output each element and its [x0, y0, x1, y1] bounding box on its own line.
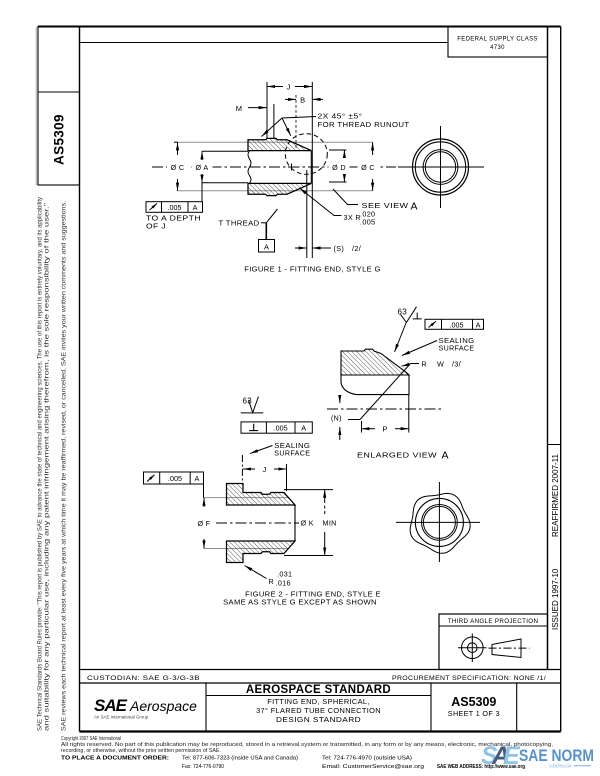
long right extension line — [311, 82, 313, 258]
dim OD line — [343, 150, 345, 158]
svg-text:AEROSPACE STANDARD: AEROSPACE STANDARD — [246, 684, 391, 696]
title block divider as5309 cell right — [516, 683, 518, 732]
dim OA extension top — [202, 150, 248, 152]
inner top border — [80, 42, 449, 44]
svg-text:FOR THREAD RUNOUT: FOR THREAD RUNOUT — [318, 120, 410, 129]
svg-text:4730: 4730 — [490, 45, 505, 51]
fcf enlarged runout symbol — [429, 321, 437, 327]
r w leader horizontal — [411, 363, 420, 365]
enlarged view right edge — [408, 375, 410, 395]
svg-text:AS5309: AS5309 — [451, 695, 496, 709]
outer top border — [38, 26, 561, 28]
fig2 J dim arrows — [243, 468, 255, 470]
svg-text:AS5309: AS5309 — [52, 114, 67, 165]
svg-text:/3/: /3/ — [452, 360, 461, 369]
svg-text:A: A — [193, 203, 198, 212]
right column divider — [548, 444, 561, 446]
dim OK line upper — [324, 490, 326, 500]
svg-text:Aerospace: Aerospace — [129, 698, 197, 714]
svg-text:Ø F: Ø F — [197, 519, 210, 528]
svg-text:(S): (S) — [334, 244, 345, 253]
leader from 63 to surface — [395, 323, 407, 352]
svg-text:THIRD ANGLE PROJECTION: THIRD ANGLE PROJECTION — [448, 618, 539, 625]
dim C left extension top — [174, 141, 178, 143]
fcf fig2-perp box — [241, 422, 312, 433]
fcf fig2 runout symbol — [147, 475, 155, 482]
perpendicularity symbol small — [413, 313, 422, 319]
svg-text:Ø D: Ø D — [332, 163, 346, 172]
dim J line with arrows — [267, 86, 283, 88]
svg-text:R: R — [422, 360, 428, 369]
svg-text:SAME AS STYLE G EXCEPT AS SHOW: SAME AS STYLE G EXCEPT AS SHOWN — [223, 598, 377, 607]
left sidebar box — [38, 27, 80, 186]
s dim arrows — [295, 247, 307, 249]
datum A stem — [265, 223, 267, 240]
fig2 thread crest line top gray — [204, 497, 288, 499]
third angle cone centerline — [489, 647, 530, 649]
fig2 end view thread circle outer — [422, 505, 458, 541]
svg-text:SAE Technical Standards Board: SAE Technical Standards Board Rules prov… — [38, 197, 44, 731]
dim OK bottom extension — [284, 555, 333, 557]
svg-text:Copyright 2007 SAE Internation: Copyright 2007 SAE International — [61, 736, 121, 742]
svg-text:recording, or otherwise, witho: recording, or otherwise, without the pri… — [61, 748, 221, 754]
svg-text:CUSTODIAN: SAE G-3/G-3B: CUSTODIAN: SAE G-3/G-3B — [87, 675, 200, 682]
dim OF line — [203, 498, 205, 507]
svg-text:SAE WEB ADDRESS: http://www.sa: SAE WEB ADDRESS: http://www.sae.org — [437, 764, 525, 770]
svg-text:3X R: 3X R — [344, 213, 361, 222]
svg-text:REAFFIRMED 2007-11: REAFFIRMED 2007-11 — [551, 453, 560, 537]
svg-text:FITTING END, SPHERICAL,: FITTING END, SPHERICAL, — [267, 697, 370, 706]
svg-text:Ø C: Ø C — [171, 163, 185, 172]
svg-text:Fax: 724-776-0790: Fax: 724-776-0790 — [182, 764, 224, 770]
dim OA line — [201, 151, 203, 160]
dim B arrows — [285, 98, 296, 100]
fig2 sealing surface leader — [250, 446, 273, 454]
svg-text:.005: .005 — [168, 474, 182, 483]
fig1 bottom band section — [248, 183, 311, 195]
fig2 surface finish check — [249, 397, 259, 413]
n dim short horizontal — [348, 419, 360, 421]
fig2 J right extension — [286, 464, 288, 491]
third angle symbol circle — [462, 637, 484, 659]
svg-text:63: 63 — [243, 397, 253, 406]
custodian row bottom line — [80, 682, 561, 684]
dim J left extension — [266, 82, 268, 138]
svg-text:Email: CustomerService@sae.org: Email: CustomerService@sae.org — [322, 764, 424, 770]
svg-text:63: 63 — [398, 308, 408, 317]
svg-text:A: A — [264, 243, 269, 252]
third angle projection box — [439, 614, 548, 670]
svg-text:SAENORM.COM: SAENORM.COM — [549, 764, 571, 769]
svg-text:B: B — [300, 96, 305, 105]
enlarged view centerline — [327, 408, 442, 410]
fcf fig1 runout symbol — [150, 204, 158, 211]
fcf enlarged box — [425, 319, 484, 329]
svg-text:DESIGN STANDARD: DESIGN STANDARD — [276, 715, 361, 724]
fig2 end view crosshair horizontal — [396, 521, 480, 523]
enlarged view hatched section — [341, 349, 409, 375]
svg-text:SAE: SAE — [94, 696, 128, 715]
dim OD extension bottom — [329, 181, 347, 183]
main frame left border — [79, 27, 81, 732]
fcf fig1 box — [146, 202, 203, 213]
fig1 sphere center tick — [288, 164, 295, 171]
dim OA extension bottom — [202, 182, 248, 184]
svg-text:A: A — [301, 424, 306, 433]
svg-text:A: A — [476, 321, 481, 330]
fig2 top section — [227, 484, 296, 506]
svg-text:37° FLARED TUBE CONNECTION: 37° FLARED TUBE CONNECTION — [256, 706, 381, 715]
svg-text:SHEET 1 OF 3: SHEET 1 OF 3 — [448, 709, 500, 718]
datum A box — [259, 240, 275, 253]
fcf fig2 connector — [203, 484, 205, 498]
svg-text:Ø C: Ø C — [361, 163, 375, 172]
fig2 end view crosshair vertical — [438, 482, 440, 562]
fig1 bore right face — [310, 151, 312, 184]
fig2 centerline — [216, 522, 299, 524]
see view a leader — [333, 189, 358, 205]
dim M arrow — [248, 107, 267, 109]
s dim left line — [306, 170, 308, 258]
note leader — [282, 117, 316, 119]
dim OD extension top — [329, 149, 347, 151]
svg-text:FEDERAL SUPPLY CLASS: FEDERAL SUPPLY CLASS — [457, 37, 538, 43]
third angle title divider — [439, 625, 548, 627]
fig2 surface finish bar — [241, 412, 264, 414]
svg-text:ENLARGED VIEW: ENLARGED VIEW — [357, 451, 438, 460]
t thread leader diagonal — [266, 209, 277, 223]
r 031 leader — [245, 566, 267, 579]
n dim line lower — [339, 427, 341, 440]
fig2 thread crest line bottom gray — [204, 548, 288, 550]
dim M extension — [273, 104, 275, 138]
svg-text:A: A — [411, 201, 418, 213]
n dim line upper — [339, 396, 341, 403]
sealing surface leader — [402, 341, 437, 356]
dim OC left line — [177, 142, 179, 155]
perpendicularity symbol fcf — [249, 424, 258, 431]
svg-text:T THREAD: T THREAD — [219, 219, 260, 228]
fig2 end view lobed contour — [410, 493, 470, 553]
svg-text:/2/: /2/ — [352, 244, 361, 253]
svg-text:.016: .016 — [276, 579, 291, 588]
end view second circle — [415, 142, 465, 192]
end view thread circle inner — [425, 152, 455, 182]
svg-text:SAE reviews each technical rep: SAE reviews each technical report at lea… — [62, 201, 68, 731]
svg-text:SURFACE: SURFACE — [274, 449, 310, 458]
p dim left extension — [361, 421, 363, 433]
end view outer circle — [413, 139, 469, 195]
svg-text:SURFACE: SURFACE — [439, 344, 475, 353]
svg-text:.031: .031 — [277, 570, 292, 579]
dim OC right line — [372, 142, 374, 155]
dim OK top extension — [284, 489, 333, 491]
svg-text:(N): (N) — [331, 416, 342, 423]
svg-text:Ø K: Ø K — [301, 519, 314, 528]
t thread dash — [261, 222, 266, 224]
svg-text:.005: .005 — [360, 218, 375, 227]
3x r leader — [300, 188, 342, 216]
svg-text:A: A — [195, 474, 200, 483]
r w long diagonal — [360, 364, 411, 420]
svg-text:An SAE International Group: An SAE International Group — [94, 715, 149, 720]
surface finish check top — [401, 307, 417, 323]
svg-text:J: J — [286, 83, 290, 92]
fig1 centerline — [152, 166, 396, 168]
dim OK line lower — [324, 545, 326, 556]
sidebar cell divider — [38, 91, 80, 93]
svg-text:Tel: 877-606-7323 (inside USA: Tel: 877-606-7323 (inside USA and Canada… — [182, 756, 298, 762]
third angle cone — [492, 639, 521, 658]
left sidebar shadow — [35, 27, 37, 185]
svg-text:.005: .005 — [450, 321, 464, 330]
fig2 end view middle circle — [415, 498, 463, 546]
custodian row top line — [80, 669, 561, 671]
svg-text:PROCUREMENT SPECIFICATION: NON: PROCUREMENT SPECIFICATION: NONE /1/ — [392, 675, 546, 682]
outer right border — [560, 27, 562, 732]
bottom border — [80, 730, 561, 732]
fig1 thread crest line top (gray) — [178, 141, 373, 143]
svg-text:.005: .005 — [274, 424, 288, 433]
svg-text:P: P — [382, 425, 387, 434]
fig2 right face — [294, 505, 296, 541]
r w arrowhead on surface — [402, 364, 410, 366]
end view thread circle outer — [423, 150, 458, 185]
svg-text:M: M — [236, 104, 243, 113]
dim B dashed extension — [295, 95, 297, 149]
fig1 thread crest line bottom (gray) — [178, 190, 373, 192]
svg-text:Tel: 724-776-4970 (outside USA: Tel: 724-776-4970 (outside USA) — [322, 756, 412, 762]
p dim right extension — [408, 395, 410, 433]
svg-text:ISSUED 1997-10: ISSUED 1997-10 — [551, 568, 560, 630]
fcf fig2 box — [144, 472, 204, 484]
fig2 end view thread circle inner — [423, 506, 455, 538]
svg-text:W: W — [437, 360, 444, 369]
svg-text:A: A — [442, 450, 449, 462]
svg-text:MIN: MIN — [323, 519, 337, 528]
fig1 top band section — [248, 138, 311, 150]
svg-text:.005: .005 — [168, 203, 182, 212]
svg-text:R: R — [269, 577, 275, 586]
end view crosshair vertical — [440, 126, 442, 208]
svg-text:TO PLACE A DOCUMENT ORDER:: TO PLACE A DOCUMENT ORDER: — [61, 756, 169, 762]
fig2 bore bottom line — [227, 540, 296, 542]
enlarged view lower outline left curve — [341, 375, 409, 395]
fig1 sphere dashed circle — [285, 134, 327, 175]
end view crosshair horizontal — [398, 166, 484, 168]
title block divider as5309 cell left — [430, 683, 432, 732]
svg-text:J: J — [262, 465, 266, 474]
sae norm small rule — [574, 765, 591, 767]
fig2 bore top line — [227, 504, 296, 506]
OA line down to fcf — [201, 183, 203, 202]
svg-text:and suitability for any partic: and suitability for any particular use, … — [45, 203, 51, 731]
p dim line — [362, 428, 376, 430]
heading underline — [206, 695, 431, 697]
federal supply class box — [448, 27, 548, 58]
fig2 bottom section — [227, 541, 296, 563]
fig1 left break line — [248, 151, 251, 184]
title block divider logo cell — [205, 683, 207, 732]
svg-text:FIGURE 1 - FITTING END, STYLE: FIGURE 1 - FITTING END, STYLE G — [244, 265, 381, 274]
svg-text:Ø A: Ø A — [195, 163, 208, 172]
fig2 sealing plane dashdot — [241, 455, 243, 481]
svg-text:SAE NORM: SAE NORM — [519, 746, 594, 765]
svg-text:OF J: OF J — [146, 222, 166, 231]
main frame inner right border — [547, 27, 549, 670]
third angle symbol crosshair — [458, 647, 487, 649]
